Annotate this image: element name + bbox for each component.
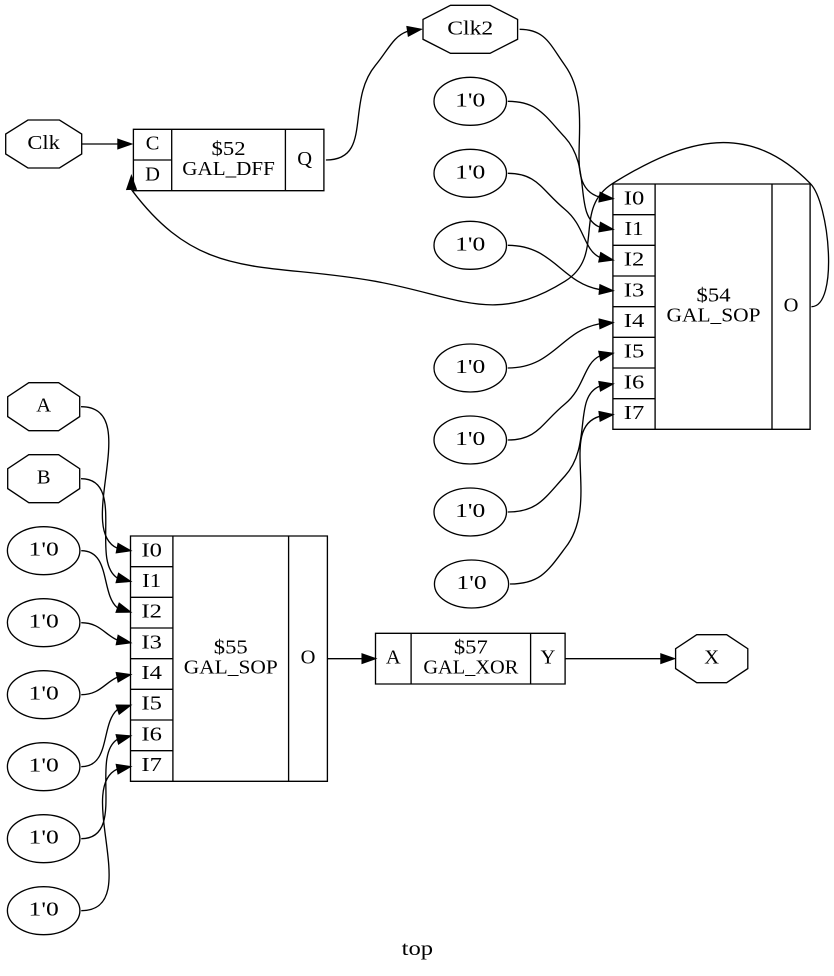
svg-text:1'0: 1'0 bbox=[455, 500, 485, 522]
wire constant 1'0 to $54.I7 bbox=[510, 412, 613, 584]
constant 1'0 driving $54.I2 bbox=[434, 149, 507, 197]
svg-text:I2: I2 bbox=[624, 249, 645, 271]
constant 1'0 driving $54.I6 bbox=[434, 488, 507, 536]
wire Clk to $52.C (clock input) bbox=[82, 139, 132, 148]
svg-text:1'0: 1'0 bbox=[29, 539, 59, 561]
svg-text:I2: I2 bbox=[141, 601, 162, 623]
constant 1'0 driving $54.I5 bbox=[434, 416, 507, 464]
svg-text:top: top bbox=[402, 938, 434, 960]
wire constant 1'0 to $55.I4 bbox=[81, 673, 130, 695]
constant 1'0 driving $55.I2 bbox=[7, 527, 80, 575]
svg-text:I3: I3 bbox=[624, 279, 645, 301]
svg-text:I6: I6 bbox=[624, 371, 645, 393]
svg-text:1'0: 1'0 bbox=[455, 161, 485, 183]
svg-text:GAL_XOR: GAL_XOR bbox=[423, 657, 518, 679]
svg-text:C: C bbox=[146, 133, 160, 155]
svg-text:Clk: Clk bbox=[27, 132, 60, 154]
svg-text:D: D bbox=[145, 163, 160, 185]
svg-text:Clk2: Clk2 bbox=[447, 17, 493, 39]
input port A (octagon) bbox=[8, 383, 80, 431]
svg-text:X: X bbox=[704, 647, 719, 669]
svg-text:I4: I4 bbox=[624, 310, 645, 332]
svg-text:Y: Y bbox=[540, 647, 555, 669]
wire constant 1'0 to $54.I2 bbox=[508, 173, 613, 262]
svg-text:GAL_DFF: GAL_DFF bbox=[182, 158, 275, 180]
svg-text:$57: $57 bbox=[454, 637, 488, 659]
constant 1'0 driving $55.I4 bbox=[7, 671, 80, 719]
input port Clk (octagon) bbox=[6, 120, 82, 168]
svg-text:$54: $54 bbox=[697, 285, 731, 307]
svg-text:I5: I5 bbox=[141, 693, 162, 715]
svg-text:1'0: 1'0 bbox=[455, 356, 485, 378]
wire constant 1'0 to $54.I3 bbox=[508, 245, 613, 294]
wire constant 1'0 to $55.I7 bbox=[81, 765, 130, 911]
wire constant 1'0 to $54.I6 bbox=[508, 382, 613, 512]
constant 1'0 driving $55.I7 bbox=[7, 887, 80, 935]
wire constant 1'0 to $55.I5 bbox=[81, 705, 130, 767]
flip-flop cell $52 GAL_DFF bbox=[133, 129, 324, 190]
input port B (octagon) bbox=[8, 455, 80, 503]
constant 1'0 driving $55.I5 bbox=[7, 743, 80, 791]
svg-text:I0: I0 bbox=[624, 187, 645, 209]
wire A to $55.I0 bbox=[81, 407, 130, 553]
XOR cell $57 GAL_XOR bbox=[376, 633, 566, 684]
svg-text:GAL_SOP: GAL_SOP bbox=[667, 305, 761, 327]
svg-text:1'0: 1'0 bbox=[455, 428, 485, 450]
svg-text:A: A bbox=[36, 395, 51, 417]
wire $55.O to $57.A bbox=[327, 654, 375, 663]
svg-text:I1: I1 bbox=[625, 218, 644, 240]
wire $52.Q to output port Clk2 bbox=[326, 27, 421, 160]
constant 1'0 driving $55.I6 bbox=[7, 815, 80, 863]
wire constant 1'0 to $54.I1 bbox=[508, 101, 613, 231]
svg-text:1'0: 1'0 bbox=[455, 89, 485, 111]
svg-text:O: O bbox=[301, 647, 316, 669]
svg-text:1'0: 1'0 bbox=[29, 611, 59, 633]
wire constant 1'0 to $54.I4 bbox=[508, 319, 613, 368]
svg-text:I0: I0 bbox=[141, 539, 162, 561]
svg-text:A: A bbox=[386, 647, 401, 669]
constant 1'0 driving $54.I4 bbox=[434, 344, 507, 392]
svg-text:I7: I7 bbox=[624, 402, 645, 424]
wire B to $55.I1 bbox=[81, 479, 130, 583]
svg-text:Q: Q bbox=[297, 148, 312, 170]
wire $57.Y to output port X bbox=[565, 654, 674, 663]
svg-text:I7: I7 bbox=[141, 754, 162, 776]
svg-text:B: B bbox=[37, 467, 51, 489]
wire constant 1'0 to $54.I5 bbox=[508, 351, 613, 440]
SOP cell $55 GAL_SOP bbox=[131, 536, 328, 781]
svg-text:I3: I3 bbox=[141, 631, 162, 653]
constant 1'0 driving $54.I3 bbox=[434, 221, 507, 269]
svg-text:1'0: 1'0 bbox=[29, 755, 59, 777]
constant 1'0 driving $55.I3 bbox=[7, 599, 80, 647]
svg-text:1'0: 1'0 bbox=[29, 827, 59, 849]
wire Clk2 to $54.I0 (feedback into SOP) bbox=[520, 29, 613, 201]
svg-text:O: O bbox=[784, 295, 799, 317]
wire constant 1'0 to $55.I3 bbox=[81, 623, 130, 645]
svg-text:1'0: 1'0 bbox=[29, 683, 59, 705]
svg-text:I4: I4 bbox=[141, 662, 162, 684]
SOP cell $54 GAL_SOP bbox=[613, 184, 810, 429]
wire constant 1'0 to $55.I6 bbox=[81, 735, 130, 839]
output port Clk2 (octagon) bbox=[423, 5, 518, 53]
svg-text:GAL_SOP: GAL_SOP bbox=[184, 657, 278, 679]
wire constant 1'0 to $55.I2 bbox=[81, 551, 130, 613]
svg-text:I5: I5 bbox=[624, 341, 645, 363]
output port X (octagon) bbox=[676, 635, 748, 683]
svg-text:1'0: 1'0 bbox=[456, 572, 486, 594]
svg-text:$52: $52 bbox=[212, 138, 246, 160]
feedback wire $54.O to $52.D (loops over $54) bbox=[127, 143, 829, 307]
svg-text:I1: I1 bbox=[142, 570, 161, 592]
constant 1'0 driving $54.I1 bbox=[434, 77, 507, 125]
constant 1'0 driving $54.I7 bbox=[434, 560, 508, 608]
svg-text:I6: I6 bbox=[141, 723, 162, 745]
svg-text:1'0: 1'0 bbox=[455, 233, 485, 255]
svg-text:1'0: 1'0 bbox=[29, 899, 59, 921]
svg-text:$55: $55 bbox=[214, 637, 248, 659]
